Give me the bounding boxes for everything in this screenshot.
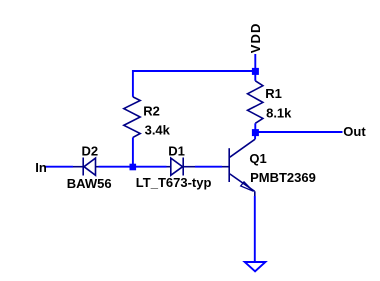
wire D2 to node (99, 166, 133, 168)
svg-text:VDD: VDD (248, 23, 263, 54)
diode D1 (167, 158, 196, 176)
wire node to D1 (133, 166, 167, 168)
svg-text:Q1: Q1 (249, 151, 266, 166)
svg-text:D1: D1 (168, 143, 185, 158)
diode D2 (73, 158, 99, 176)
wire emitter to ground (254, 196, 256, 262)
wire out (255, 131, 342, 133)
svg-text:3.4k: 3.4k (145, 123, 171, 138)
wire D1 to Q1 base (195, 166, 222, 168)
svg-text:PMBT2369: PMBT2369 (250, 170, 316, 185)
wire top rail (133, 71, 255, 97)
svg-text:R1: R1 (265, 86, 282, 101)
ground (245, 262, 266, 271)
wire VDD stub (254, 54, 256, 71)
node junction at R1/Out/collector (252, 129, 259, 136)
resistor R2 (124, 97, 140, 137)
svg-text:Out: Out (343, 124, 366, 139)
svg-text:8.1k: 8.1k (266, 106, 292, 121)
svg-text:LT_T673-typ: LT_T673-typ (136, 175, 212, 190)
transistor Q1 (222, 139, 255, 196)
node junction at D2/D1/R2 (130, 164, 137, 171)
svg-text:R2: R2 (143, 103, 160, 118)
resistor R1 (248, 81, 263, 124)
wire collector stub (254, 133, 256, 140)
wire R2 to node (132, 137, 134, 166)
svg-text:In: In (35, 160, 47, 175)
wire VDD node to R1 (254, 71, 256, 81)
svg-text:D2: D2 (82, 143, 99, 158)
svg-text:BAW56: BAW56 (67, 176, 112, 191)
wire R1 to out node (254, 123, 256, 132)
node junction at VDD/R1 (252, 68, 259, 75)
wire In to D2 (45, 166, 73, 168)
